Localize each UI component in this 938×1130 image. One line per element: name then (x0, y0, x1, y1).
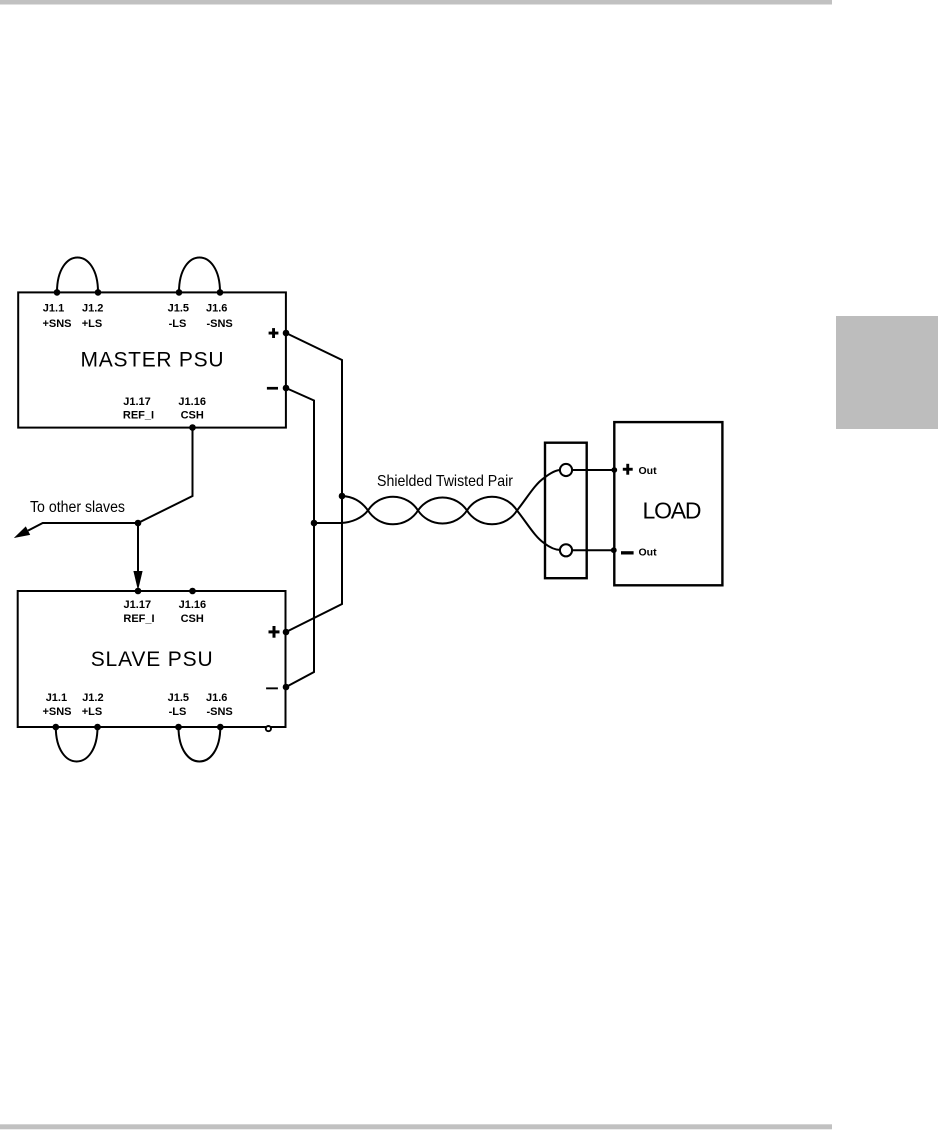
svg-text:J1.2: J1.2 (82, 303, 103, 315)
svg-text:SLAVE PSU: SLAVE PSU (91, 648, 213, 671)
svg-text:J1.17: J1.17 (124, 599, 152, 611)
svg-text:J1.2: J1.2 (82, 692, 103, 704)
svg-text:-LS: -LS (169, 706, 187, 718)
svg-text:+LS: +LS (82, 706, 102, 718)
svg-text:-SNS: -SNS (206, 318, 232, 330)
svg-text:J1.6: J1.6 (206, 303, 227, 315)
svg-text:J1.16: J1.16 (178, 396, 206, 408)
svg-text:Shielded Twisted Pair: Shielded Twisted Pair (377, 473, 514, 490)
svg-text:CSH: CSH (181, 410, 204, 422)
svg-text:Out: Out (639, 547, 658, 559)
svg-text:To other slaves: To other slaves (30, 499, 125, 516)
svg-text:+SNS: +SNS (42, 706, 71, 718)
svg-text:+SNS: +SNS (42, 318, 71, 330)
svg-text:+LS: +LS (82, 318, 102, 330)
svg-text:CSH: CSH (181, 613, 204, 625)
svg-text:REF_I: REF_I (123, 410, 154, 422)
svg-text:-SNS: -SNS (206, 706, 232, 718)
svg-text:MASTER PSU: MASTER PSU (81, 348, 224, 371)
svg-text:J1.1: J1.1 (43, 303, 64, 315)
svg-text:J1.6: J1.6 (206, 692, 227, 704)
svg-text:J1.1: J1.1 (46, 692, 67, 704)
svg-text:J1.17: J1.17 (123, 396, 151, 408)
svg-text:-LS: -LS (169, 318, 187, 330)
svg-text:J1.16: J1.16 (179, 599, 207, 611)
svg-text:J1.5: J1.5 (168, 303, 189, 315)
svg-text:REF_I: REF_I (123, 613, 154, 625)
svg-text:Out: Out (639, 465, 658, 477)
svg-text:LOAD: LOAD (643, 497, 702, 523)
svg-text:J1.5: J1.5 (168, 692, 189, 704)
